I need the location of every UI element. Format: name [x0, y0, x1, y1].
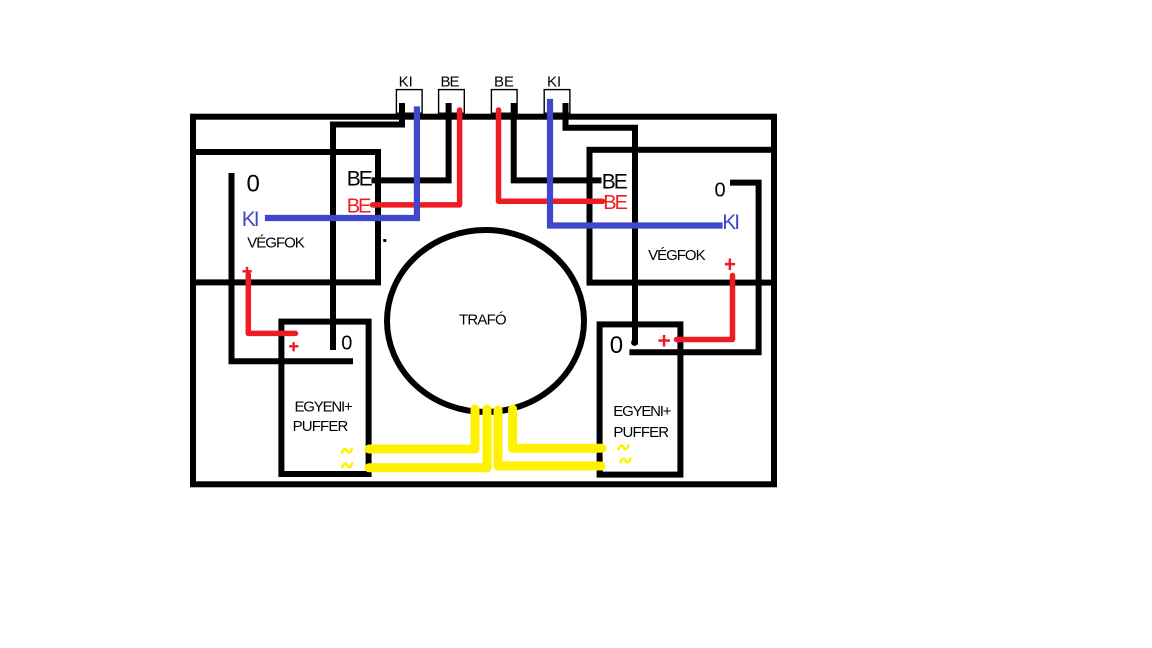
svg-text:VÉGFOK: VÉGFOK	[247, 234, 305, 251]
svg-text:0: 0	[247, 171, 260, 198]
svg-text:PUFFER: PUFFER	[293, 418, 349, 435]
svg-text:BE: BE	[603, 192, 627, 214]
svg-text:BE: BE	[347, 195, 371, 217]
svg-text:BE: BE	[347, 168, 373, 191]
svg-text:BE: BE	[494, 74, 514, 91]
svg-text:KI: KI	[722, 211, 738, 234]
svg-text:TRAFÓ: TRAFÓ	[459, 312, 506, 329]
svg-text:KI: KI	[399, 74, 413, 91]
svg-text:0: 0	[610, 332, 623, 359]
svg-text:KI: KI	[547, 74, 561, 91]
svg-text:EGYENI+: EGYENI+	[613, 403, 671, 420]
svg-text:0: 0	[341, 333, 352, 355]
svg-text:KI: KI	[242, 208, 258, 231]
svg-text:PUFFER: PUFFER	[613, 424, 669, 441]
svg-text:0: 0	[715, 180, 726, 202]
svg-text:BE: BE	[441, 74, 460, 91]
svg-text:EGYENI+: EGYENI+	[295, 398, 353, 415]
svg-text:BE: BE	[602, 171, 628, 194]
svg-text:VÉGFOK: VÉGFOK	[648, 247, 706, 264]
